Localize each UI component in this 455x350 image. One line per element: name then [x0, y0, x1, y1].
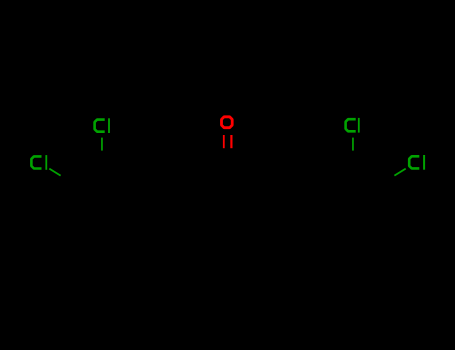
oxygen atom label O (ketone): [222, 117, 233, 128]
chlorine label Cl (left ring, lower): [31, 155, 47, 170]
bond Cl to ring carbon (right top, green half, vertical): [352, 138, 354, 151]
bond Cl to ring carbon (right lower, green half, diagonal): [394, 169, 405, 176]
chlorine label Cl (right ring, lower): [409, 155, 425, 170]
bond Cl to ring carbon (left top, green half, vertical): [101, 138, 103, 151]
bond Cl to ring carbon (left lower, green half, diagonal): [49, 169, 60, 176]
chlorine label Cl (left ring, top): [95, 118, 110, 133]
chlorine label Cl (right ring, top): [346, 118, 360, 133]
C=O double bond (red half): [223, 135, 233, 148]
